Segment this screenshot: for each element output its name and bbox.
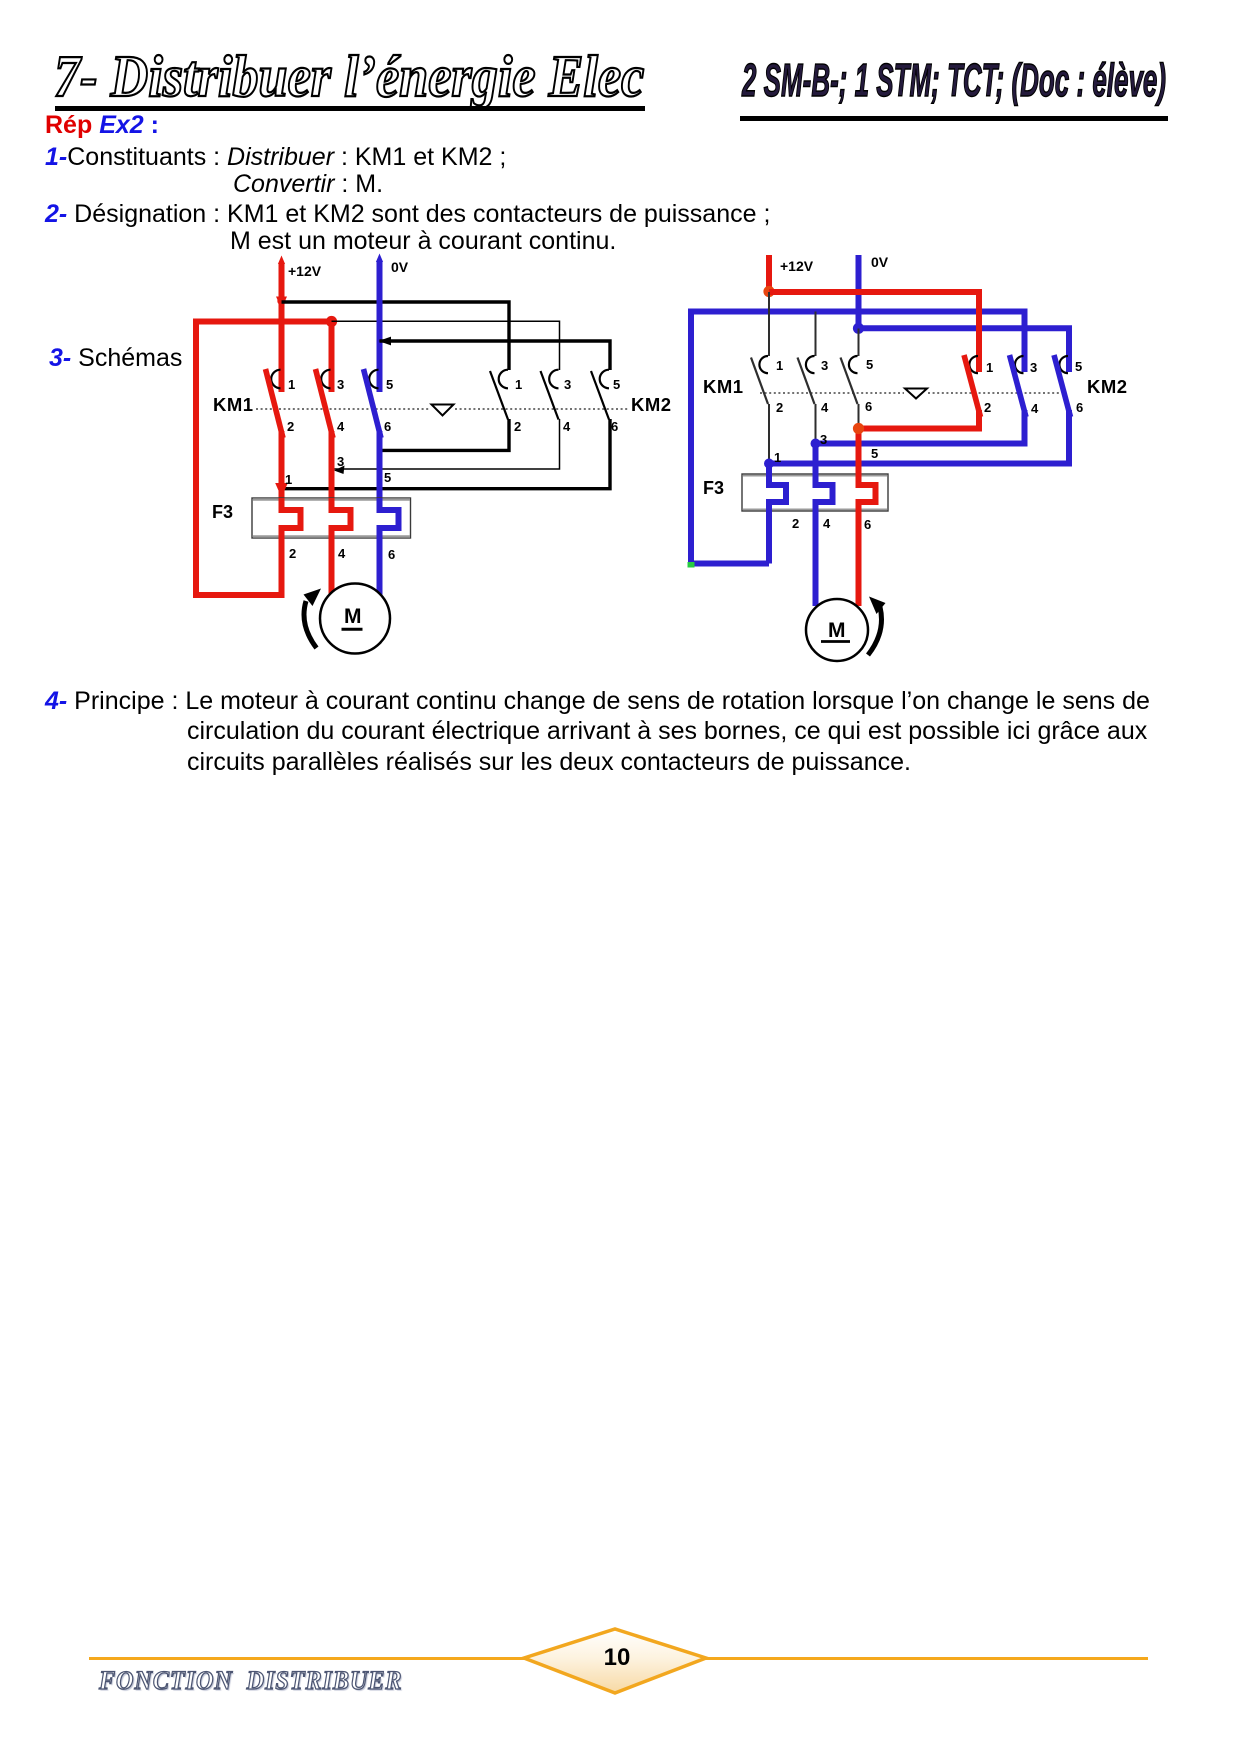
label +12V right: [780, 258, 814, 274]
svg-text:KM1: KM1: [213, 394, 254, 415]
thermal relay F3 box (right): [742, 474, 888, 511]
svg-text:6: 6: [864, 517, 871, 532]
svg-text:1: 1: [515, 377, 522, 392]
answer heading: [45, 111, 159, 140]
header title left: [54, 42, 644, 111]
F3 element 5-6 (right): [859, 473, 876, 606]
wire +12V supply right: [766, 255, 772, 292]
svg-text:5: 5: [1075, 359, 1082, 374]
pin labels KM2 top (left): [515, 377, 620, 392]
contactor KM1 pole 3 arc (right): [849, 356, 858, 373]
wire blue KM2-6 return to F3-1 (right): [769, 410, 1069, 486]
svg-text:3: 3: [1030, 360, 1037, 375]
wire KM1-4 to F3-3 (left): [329, 431, 335, 511]
wire KM1 pole 2 upper tap (right): [815, 312, 817, 357]
contactor KM2 pole 1 lever open (left): [490, 371, 508, 420]
svg-text:6: 6: [384, 419, 391, 434]
wire black KM2-1 top feed (left): [282, 302, 510, 370]
header right class tag: [742, 53, 1166, 107]
node junction F3-1 (right): [764, 459, 774, 469]
footer rule: [89, 1657, 1148, 1660]
label +12V left: [288, 263, 322, 279]
contactor KM1 pole 2 arc (right): [806, 356, 815, 373]
pin labels KM1 top (left): [288, 377, 393, 392]
contactor KM1 label (right): [703, 376, 744, 397]
wire red KM2-2 return to F3-5 (right): [859, 410, 980, 486]
svg-text:5: 5: [866, 357, 873, 372]
svg-text:6: 6: [865, 399, 872, 414]
contactor KM2 pole 1 arc (left): [499, 370, 508, 389]
contactor KM1 pole 1 lever closed (left): [266, 369, 284, 438]
svg-text:1: 1: [776, 358, 783, 373]
wire KM1 pole 3 upper tap (right): [858, 329, 860, 357]
svg-text:3: 3: [564, 377, 571, 392]
F3 element 3-4 (right): [816, 473, 833, 606]
node junction loop/KM1 pole2 (left): [326, 316, 337, 327]
svg-text:4: 4: [823, 516, 831, 531]
wire red +12V to KM2-1 (right): [769, 292, 979, 372]
svg-text:6: 6: [611, 419, 618, 434]
contactor KM1 pole 2 arc (left): [321, 370, 330, 389]
node junction F3-1 (left): [275, 483, 288, 498]
pin labels KM1 bottom (left): [287, 419, 391, 434]
svg-text:3: 3: [337, 454, 344, 469]
item 4 principle line 2: [187, 717, 1147, 746]
contactor KM1 pole 3 arc (left): [369, 370, 378, 389]
svg-text:1: 1: [285, 472, 292, 487]
contactor KM2 pole 1 lever closed (right): [964, 355, 981, 417]
node junction +12V right: [763, 286, 774, 297]
contactor KM1 pole 3 lever open (right): [841, 358, 858, 405]
svg-text:+12V: +12V: [780, 258, 814, 274]
svg-text:M: M: [828, 619, 846, 642]
svg-text:2: 2: [792, 516, 799, 531]
contactor KM2 pole 3 arc (left): [600, 370, 609, 389]
svg-text:M: M: [344, 605, 362, 628]
net labels mid (left): [285, 454, 391, 487]
svg-text:4: 4: [821, 400, 829, 415]
contactor KM2 pole 3 lever open (left): [591, 371, 609, 420]
wire blue loop F3-2 to KM2-3 (right): [691, 312, 1025, 564]
wire KM1 pole 1 upper tap (right): [768, 292, 770, 356]
wire KM1 pole 1 lower tap (right): [768, 404, 770, 464]
F3 element 3-4 (left): [332, 498, 351, 594]
label 0V left: [391, 259, 409, 275]
thermal relay F3 label (right): [703, 478, 724, 498]
svg-text:4: 4: [563, 419, 571, 434]
pin labels KM1 bottom (right): [776, 399, 872, 415]
item 2 line 2: [230, 227, 616, 256]
header underline left: [55, 106, 645, 111]
label 0V right: [871, 254, 889, 270]
svg-text:2: 2: [776, 400, 783, 415]
svg-text:5: 5: [613, 377, 620, 392]
thermal relay F3 label (left): [212, 502, 233, 522]
svg-text:5: 5: [386, 377, 393, 392]
motor M (left): [320, 584, 390, 654]
contactor KM2 pole 2 arc (right): [1015, 356, 1024, 373]
wire 0V supply right: [856, 255, 862, 329]
wire blue KM2-4 return to F3-3 (right): [816, 410, 1025, 486]
node junction +12V to KM2 pole1 (left): [276, 297, 287, 310]
wire KM2-4 return (left): [334, 419, 560, 474]
wire KM1-6 to F3-5 (left): [377, 431, 383, 511]
svg-text:1: 1: [986, 360, 993, 375]
wire KM2-2 return (left): [382, 419, 509, 450]
contactor KM1 pole 2 lever open (right): [798, 358, 815, 405]
wire +12V supply left: [278, 256, 285, 393]
svg-text:4: 4: [1031, 401, 1039, 416]
contactor KM1 pole 1 arc (right): [759, 356, 768, 373]
svg-text:KM2: KM2: [631, 394, 672, 415]
svg-text:KM2: KM2: [1087, 376, 1128, 397]
svg-text:5: 5: [871, 446, 878, 461]
contactor KM1 pole 2 lever closed (left): [316, 369, 334, 438]
pin labels KM2 bottom (left): [514, 419, 618, 434]
node junction F3-3 (right): [811, 439, 821, 449]
contactor KM1 label (left): [213, 394, 254, 415]
contactor KM2 pole 3 lever closed (right): [1054, 355, 1071, 417]
footer function label: [99, 1666, 402, 1696]
node junction 0V right: [853, 323, 864, 334]
svg-text:4: 4: [338, 546, 346, 561]
item 4 principle line 1: [45, 687, 1150, 716]
contactor KM2 pole 2 arc (left): [549, 370, 558, 389]
contactor KM2 pole 2 lever open (left): [541, 371, 559, 420]
node junction F3-5 (right): [853, 423, 864, 434]
rotation arrow cw (right): [868, 597, 886, 656]
dotted mechanical link (right): [760, 392, 1060, 394]
svg-text:0V: 0V: [391, 259, 409, 275]
svg-text:F3: F3: [212, 502, 233, 522]
item 4 principle line 3: [187, 748, 911, 777]
F3 element 1-2 (right): [769, 473, 786, 564]
rotation arrow ccw (left): [304, 589, 322, 649]
item 1 line 2: [233, 170, 383, 199]
wire red loop F3-2 to KM1-3 (left): [196, 322, 332, 596]
svg-text:1: 1: [288, 377, 295, 392]
F3 element 5-6 (left): [380, 498, 399, 597]
svg-text:6: 6: [1076, 400, 1083, 415]
footer page diamond: [510, 1620, 730, 1710]
svg-text:F3: F3: [703, 478, 724, 498]
svg-text:2: 2: [984, 400, 991, 415]
svg-text:4: 4: [337, 419, 345, 434]
pin labels F3 bottom (left): [289, 546, 395, 562]
pin labels KM2 top (right): [986, 359, 1082, 375]
svg-text:1: 1: [774, 450, 781, 465]
svg-text:2: 2: [289, 546, 296, 561]
svg-text:3: 3: [821, 358, 828, 373]
item 2 line 1: [45, 200, 770, 229]
svg-text:6: 6: [388, 547, 395, 562]
wire KM1-2 to F3-1 (left): [279, 431, 285, 511]
item 1 line 1: [45, 143, 506, 172]
net labels mid (right): [774, 432, 878, 465]
svg-text:10: 10: [604, 1644, 631, 1671]
F3 element 1-2 (left): [282, 498, 301, 598]
dotted mechanical link KM1-KM2 (left): [256, 408, 628, 410]
svg-text:3: 3: [337, 377, 344, 392]
pin labels KM1 top (right): [776, 357, 873, 373]
contactor KM2 pole 1 arc (right): [969, 356, 978, 373]
contactor KM2 label (right): [1087, 376, 1128, 397]
wire black KM2-3 top feed (left): [332, 321, 560, 370]
svg-text:3: 3: [820, 432, 827, 447]
svg-text:0V: 0V: [871, 254, 889, 270]
wire black KM2-5 top feed (left): [379, 337, 611, 370]
wire blue 0V to KM2-5 (right): [859, 328, 1070, 372]
contactor KM2 pole 3 arc (right): [1059, 356, 1068, 373]
svg-text:+12V: +12V: [288, 263, 322, 279]
mechanical link triangle (left): [432, 405, 454, 416]
motor M (right): [806, 599, 868, 661]
pin labels KM2 bottom (right): [984, 400, 1083, 416]
svg-text:2: 2: [287, 419, 294, 434]
contactor KM2 pole 2 lever closed (right): [1010, 355, 1027, 417]
wire KM2-6 return (left): [282, 419, 611, 489]
svg-text:5: 5: [384, 470, 391, 485]
scan artifact green speck: [688, 562, 695, 568]
svg-text:KM1: KM1: [703, 376, 744, 397]
item 3 heading: [49, 344, 182, 373]
header underline right: [740, 116, 1168, 121]
mechanical link triangle (right): [905, 389, 927, 399]
contactor KM1 pole 1 lever open (right): [751, 358, 768, 405]
wire KM1 pole 2 lower tap (right): [815, 404, 817, 444]
wire 0V supply left: [376, 254, 383, 393]
pin labels F3 bottom (right): [792, 516, 871, 532]
contactor KM1 pole 3 lever closed (left): [364, 369, 382, 438]
svg-text:2: 2: [514, 419, 521, 434]
contactor KM1 pole 1 arc (left): [271, 370, 280, 389]
wire KM1 pole 3 lower tap (right): [858, 404, 860, 429]
thermal relay F3 box (left): [252, 498, 411, 538]
contactor KM2 label (left): [631, 394, 672, 415]
